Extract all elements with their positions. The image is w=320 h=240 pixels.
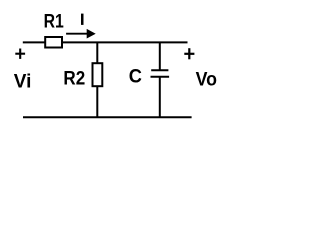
wire R2 branch vertical: [96, 42, 98, 117]
capacitor C bottom plate: [151, 76, 170, 78]
plus sign left (+): [15, 49, 25, 59]
svg-text:R2: R2: [63, 67, 85, 89]
wire bottom return rail: [23, 116, 192, 118]
svg-text:Vo: Vo: [196, 69, 217, 91]
svg-text:R1: R1: [44, 11, 64, 33]
resistor R1: [45, 37, 62, 48]
svg-text:C: C: [129, 65, 142, 87]
wire top rail Vi to Vo: [23, 41, 188, 43]
wire C branch vertical upper lead: [159, 42, 161, 70]
wire C branch vertical lower lead: [159, 77, 161, 117]
plus sign right (+): [184, 48, 194, 59]
current arrow I: [66, 29, 96, 39]
capacitor C top plate: [151, 69, 168, 71]
svg-text:Vi: Vi: [14, 71, 32, 93]
resistor R2: [93, 63, 103, 86]
label I: [81, 14, 84, 25]
